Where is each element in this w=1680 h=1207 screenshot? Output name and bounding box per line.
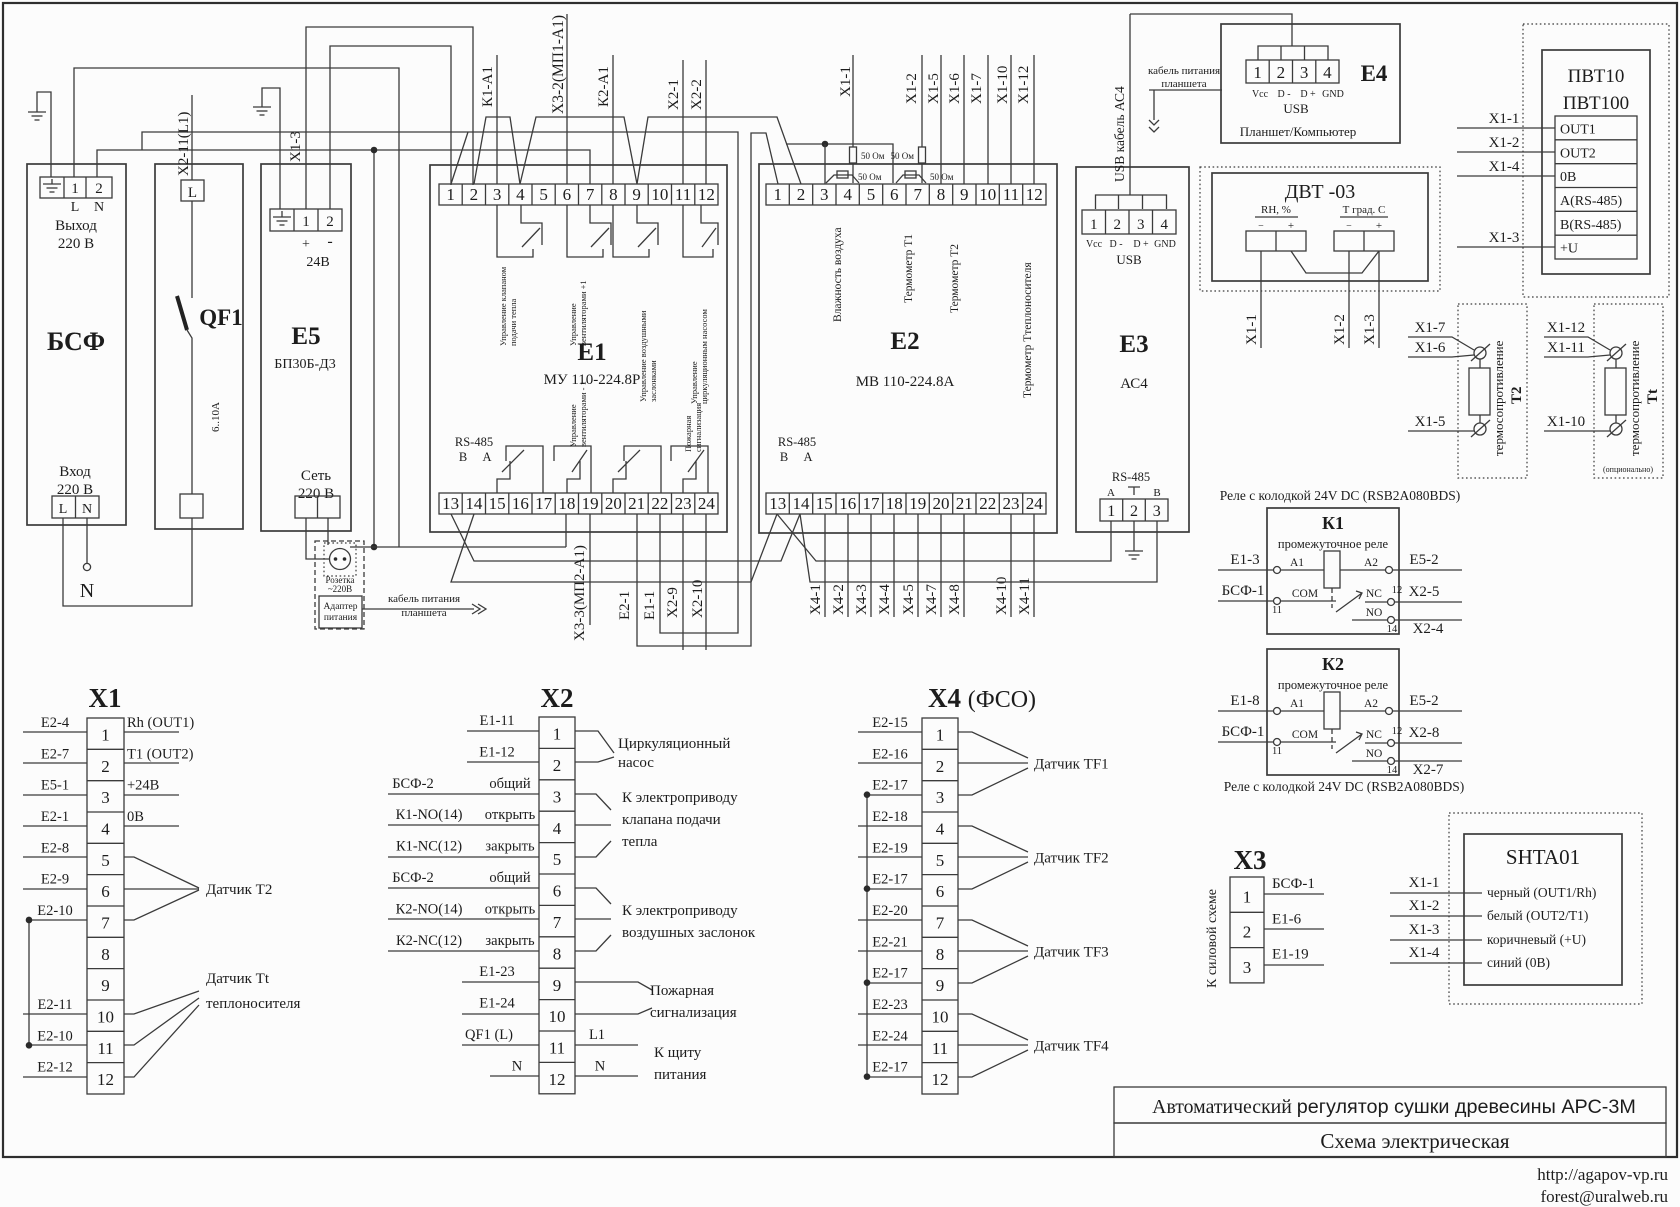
relay contact E1 out 5 [497,446,543,493]
node Х1-3 (SHTA01 коричневый (+U)) [1390,939,1482,941]
svg-text:12: 12 [1392,726,1403,737]
svg-text:22: 22 [979,494,996,513]
svg-text:+: + [1288,220,1294,232]
svg-text:Е2-21: Е2-21 [872,934,907,950]
node Х4-4 [893,514,895,617]
svg-text:Циркуляционный: Циркуляционный [618,736,730,752]
relay contact E1 out 6 (fans -1) [554,446,591,493]
node Е2-9 (X1 row 6) [23,888,87,890]
terminal L of QF1 [181,180,204,201]
wire BSF input N stub [86,518,88,563]
svg-text:4: 4 [1323,63,1332,82]
block E5 power supply BP30B-D3 [261,164,351,531]
svg-text:N: N [94,200,104,215]
svg-text:Е2-7: Е2-7 [41,746,69,762]
svg-text:сигнализация: сигнализация [693,403,703,452]
relay К2 COM contact [1218,741,1336,743]
svg-text:белый (OUT2/T1): белый (OUT2/T1) [1487,908,1588,923]
svg-text:Влажность воздуха: Влажность воздуха [832,227,844,322]
svg-text:7: 7 [586,185,595,204]
power adapter box [319,596,362,628]
svg-text:50 Ом: 50 Ом [930,172,954,182]
RTD Tt leads [1615,359,1617,423]
svg-text:6: 6 [890,185,899,204]
svg-text:4: 4 [516,185,525,204]
svg-text:Е2-4: Е2-4 [41,715,70,731]
svg-text:A(RS-485): A(RS-485) [1560,194,1623,209]
wire USB cable E4 to E3 [1130,14,1292,46]
svg-text:9: 9 [936,976,945,995]
svg-text:4: 4 [101,820,110,839]
svg-text:2: 2 [1113,217,1121,233]
svg-text:БСФ-1: БСФ-1 [1222,724,1265,740]
svg-text:БСФ-1: БСФ-1 [1222,583,1265,599]
svg-text:термосопротивление: термосопротивление [1627,340,1642,456]
svg-text:2: 2 [1130,503,1138,520]
E3 USB terminals [1082,210,1176,234]
svg-text:X1: X1 [89,683,122,713]
sensor Датчик TF2 bracket [958,826,1028,889]
svg-text:3: 3 [553,787,562,806]
relay contact E1 out 8 (fire alarm) [671,446,708,493]
svg-text:N: N [512,1058,523,1074]
svg-text:подачи тепла: подачи тепла [508,298,518,346]
svg-text:В: В [780,450,788,464]
svg-text:Е2-11: Е2-11 [38,997,73,1013]
svg-text:Пожарная: Пожарная [650,983,714,999]
svg-text:1: 1 [446,185,455,204]
svg-text:вентиляторами - 1: вентиляторами - 1 [578,381,588,447]
svg-text:L: L [59,502,68,517]
RTD sensor T2 (thermoresistance) [1458,304,1527,478]
svg-text:Е5-2: Е5-2 [1409,552,1438,568]
svg-text:50 Ом: 50 Ом [891,151,915,161]
svg-text:воздушных заслонок: воздушных заслонок [622,925,756,941]
svg-text:Е2-12: Е2-12 [37,1060,72,1076]
wire BSF input L to QF1 [63,518,192,606]
svg-text:общий: общий [489,776,531,792]
node Е1-11 (X2 row 1) [467,730,539,732]
node Е2-16 (X4 row 2) [858,762,922,764]
svg-text:18: 18 [558,494,575,513]
node Е2-17 (X4 row 9) [867,982,922,984]
svg-text:6..10А: 6..10А [210,402,222,432]
svg-text:БП30Б-Д3: БП30Б-Д3 [274,357,335,372]
svg-text:19: 19 [582,494,599,513]
svg-text:6: 6 [563,185,572,204]
svg-text:Х1-3: Х1-3 [1362,314,1378,345]
QF1 bottom terminal [180,494,203,518]
svg-text:T1 (OUT2): T1 (OUT2) [127,746,194,762]
svg-text:Управление: Управление [568,404,578,447]
svg-text:50 Ом: 50 Ом [861,151,885,161]
svg-text:7: 7 [553,913,562,932]
svg-text:Х1-2: Х1-2 [1332,314,1348,345]
node X1-10 [1544,430,1610,432]
svg-text:закрыть: закрыть [485,839,535,855]
svg-text:питания: питания [324,613,358,623]
relay contact E1 out 2 (fans +1) [567,205,611,257]
svg-text:Пожарная: Пожарная [683,416,693,452]
svg-text:20: 20 [605,494,622,513]
svg-text:2: 2 [797,185,806,204]
node 0В (X1 row 4) [124,825,179,827]
svg-text:+: + [1376,220,1382,232]
svg-text:сигнализация: сигнализация [650,1005,737,1021]
svg-text:22: 22 [651,494,668,513]
svg-text:ПВТ10: ПВТ10 [1568,66,1625,87]
cable arrow chevrons [472,604,486,614]
svg-text:Х1-10: Х1-10 [1547,414,1585,430]
svg-text:К2-NO(14): К2-NO(14) [396,901,463,917]
BSF input terminals L N [52,496,99,518]
svg-text:2: 2 [1277,63,1286,82]
svg-text:термосопротивление: термосопротивление [1491,340,1506,456]
svg-text:L1: L1 [589,1027,605,1043]
svg-text:Х1-5: Х1-5 [1415,414,1446,430]
svg-text:К силовой схеме: К силовой схеме [1205,889,1220,988]
node Х4-1 [824,514,826,617]
svg-text:Е1-24: Е1-24 [479,996,515,1012]
node Х4-2 [847,514,849,617]
svg-text:Х4-3: Х4-3 [854,584,870,615]
svg-text:4: 4 [843,185,852,204]
svg-text:Х1-3: Х1-3 [288,131,304,162]
svg-text:20: 20 [933,494,950,513]
wire branch to mains socket [373,150,375,547]
svg-text:OUT1: OUT1 [1560,123,1596,138]
svg-text:23: 23 [675,494,692,513]
node X1-6 [1408,355,1474,357]
svg-text:+: + [302,237,310,252]
svg-text:3: 3 [820,185,829,204]
sensor Датчик TF4 bracket [958,1014,1028,1077]
svg-text:Е2: Е2 [890,328,919,355]
svg-text:A1: A1 [1290,557,1304,569]
svg-text:-: - [327,233,332,250]
svg-text:A2: A2 [1364,698,1378,710]
svg-text:2: 2 [101,757,110,776]
svg-text:14: 14 [1387,624,1398,635]
svg-text:Реле с колодкой 24V DC (RSB2A0: Реле с колодкой 24V DC (RSB2A080BDS) [1220,488,1460,503]
svg-text:5: 5 [936,851,945,870]
wire stub to X2-11(L1) [191,95,193,180]
svg-text:7: 7 [913,185,922,204]
svg-text:Датчик Тt: Датчик Тt [206,971,270,987]
svg-text:8: 8 [937,185,946,204]
svg-text:Планшет/Компьютер: Планшет/Компьютер [1240,124,1357,139]
svg-text:12: 12 [97,1070,114,1089]
E3 USB plug comb [1096,195,1167,209]
svg-text:13: 13 [769,494,786,513]
svg-text:ДВТ -03: ДВТ -03 [1285,181,1356,203]
node Е2-23 (X4 row 10) [858,1013,922,1015]
E5 output terminals [270,209,342,231]
relay К1 coil pins A1 A2 [1281,569,1385,571]
svg-text:Е5: Е5 [291,323,320,350]
svg-text:Х1-3: Х1-3 [1409,922,1440,938]
svg-text:12: 12 [1026,185,1043,204]
svg-text:11: 11 [932,1039,948,1058]
wire analog common E2-3/E2-6 [786,144,893,183]
svg-text:16: 16 [839,494,856,513]
svg-text:1: 1 [1253,63,1262,82]
block BSF (surge filter) [27,164,126,525]
svg-text:Адаптер: Адаптер [324,602,358,612]
svg-text:Е2-9: Е2-9 [41,872,69,888]
node Х4-8 [963,514,965,617]
svg-text:БСФ-2: БСФ-2 [392,870,433,886]
block E2 input module MV 110-224.8A [759,164,1057,533]
svg-text:Х1-7: Х1-7 [1415,320,1446,336]
svg-text:6: 6 [553,882,562,901]
node T1 (OUT2) (X1 row 2) [124,762,179,764]
svg-text:Х4-8: Х4-8 [947,584,963,615]
RTD T2 leads [1479,359,1481,423]
svg-text:5: 5 [867,185,876,204]
relay К2 NC contact [1365,742,1462,744]
svg-text:Схема электрическая: Схема электрическая [1320,1129,1509,1153]
relay contact E1 out 4 (circulation pump) [683,205,718,257]
svg-text:220 В: 220 В [298,486,334,502]
svg-text:Т град. С: Т град. С [1343,204,1386,216]
svg-text:QF1: QF1 [199,305,242,330]
svg-text:24: 24 [1026,494,1044,513]
mains socket Rozetka ~220V [315,541,364,629]
svg-text:2: 2 [1243,923,1252,942]
node Е2-17 (X4 row 12) [867,1076,922,1078]
svg-text:К2-NC(12): К2-NC(12) [396,933,462,949]
svg-text:Х1-1: Х1-1 [1244,314,1260,345]
node Е1-23 (X2 row 9) [462,981,539,983]
svg-text:общий: общий [489,870,531,886]
wire 220V L bus E1-2/E1-4/E1-9 to E2-2 [474,117,801,184]
block PVT10/PVT100 controller [1523,24,1669,297]
E2 bottom terminals 13-24 [766,493,1046,514]
svg-text:2: 2 [95,181,103,197]
svg-text:RS-485: RS-485 [1112,470,1150,484]
wire E5 -24V to E1-1 [330,46,451,209]
node БСФ-2 (X2 row 3) [388,793,539,795]
circuit breaker QF1 [155,164,243,529]
svg-text:SHTA01: SHTA01 [1506,845,1580,869]
svg-text:Х1-12: Х1-12 [1547,320,1585,336]
svg-text:Управление: Управление [689,361,699,404]
svg-text:Автоматический регулятор сушки: Автоматический регулятор сушки древесины… [1152,1096,1636,1118]
svg-text:RS-485: RS-485 [455,435,493,449]
block DVT-03 humidity/temperature sensor [1200,167,1440,291]
node Rh (OUT1) (X1 row 1) [124,731,179,733]
relay К1 external coil wires [1218,569,1462,571]
wire E5 +24V to E1-2 [306,27,473,209]
node QF1 (L) (X2 row 11) [462,1044,539,1046]
svg-text:К1-А1: К1-А1 [480,66,496,107]
node X2-10 on E1-24 [705,514,707,650]
node X1-11 [1544,355,1610,357]
svg-text:5: 5 [539,185,548,204]
wire E1-1 riser [451,132,468,184]
svg-text:Х1-2: Х1-2 [904,73,920,104]
svg-text:11: 11 [1003,185,1019,204]
svg-text:N: N [82,502,92,517]
node Е1-19 (X3 row 3) [1264,964,1324,966]
svg-text:15: 15 [489,494,506,513]
svg-text:Е2-10: Е2-10 [37,903,72,919]
svg-text:NO: NO [1366,607,1383,619]
svg-text:Х1-1: Х1-1 [1409,875,1440,891]
svg-text:Е2-10: Е2-10 [37,1028,72,1044]
svg-text:Х2-1: Х2-1 [666,79,682,110]
BSF output terminals [40,177,112,198]
svg-text:Е3: Е3 [1119,331,1148,358]
svg-text:промежуточное реле: промежуточное реле [1278,537,1389,551]
svg-text:+24В: +24В [127,778,159,794]
svg-text:16: 16 [512,494,529,513]
wire E5 PE to ground [262,88,280,209]
svg-text:3: 3 [493,185,502,204]
svg-text:QF1 (L): QF1 (L) [465,1027,513,1043]
svg-text:12: 12 [932,1070,949,1089]
relay contact E1 out 1 (heat valve) [497,205,542,257]
sensor Датчик TF1 bracket [958,732,1028,795]
wire DVT RH+ to T+ bridge [1291,251,1379,273]
svg-text:Е1-12: Е1-12 [479,744,514,760]
wire socket to E1-18 [350,546,566,548]
wire RS-485 A to E3-3 [800,514,1157,582]
relay К2 external coil wires [1218,710,1462,712]
svg-text:В: В [1153,487,1160,499]
svg-text:Х1-3: Х1-3 [1489,230,1520,246]
svg-text:9: 9 [960,185,969,204]
svg-text:Е1-19: Е1-19 [1272,947,1309,963]
svg-text:МВ 110-224.8А: МВ 110-224.8А [856,374,955,390]
svg-text:Реле с колодкой 24V DC (RSB2A0: Реле с колодкой 24V DC (RSB2A080BDS) [1224,779,1464,794]
svg-text:4: 4 [936,820,945,839]
svg-text:Е2-16: Е2-16 [872,746,907,762]
node X3-3(MP2-A1) on E1-19 [589,514,591,625]
sensor T2 connection bracket [124,857,199,920]
svg-text:Е2-17: Е2-17 [872,1060,907,1076]
wire tablet power cable [362,608,474,610]
svg-text:К1: К1 [1322,513,1344,533]
relay contact E1 out 7 [613,446,661,493]
svg-text:Т2: Т2 [1509,386,1525,404]
relay К2 box [1267,649,1399,775]
svg-text:USB: USB [1116,252,1142,267]
node Е2-17 (X4 row 3) [867,794,922,796]
svg-text:Х1-5: Х1-5 [926,73,942,104]
E4 USB terminals [1246,60,1339,83]
svg-text:1: 1 [101,726,110,745]
node К1-NC(12) (X2 row 5) [388,856,539,858]
svg-text:Датчик Т2: Датчик Т2 [206,882,272,898]
svg-text:кабель питания: кабель питания [1148,65,1220,77]
svg-text:Vcc: Vcc [1252,89,1269,100]
resistor 50 Ohm shunt 1 (vertical) [852,55,854,183]
svg-text:Х2-10: Х2-10 [690,580,706,618]
svg-text:17: 17 [535,494,553,513]
svg-text:планшета: планшета [401,607,446,619]
svg-text:3: 3 [1137,217,1145,233]
resistor 50 Ohm shunt across E2-6/7 [896,175,926,183]
svg-text:COM: COM [1292,729,1318,741]
svg-text:L: L [71,200,80,215]
node X1-3 (PVT) [1457,246,1555,248]
svg-text:Тt: Тt [1645,389,1661,404]
ground [1125,551,1143,559]
svg-text:3: 3 [101,788,110,807]
svg-text:17: 17 [863,494,881,513]
node Х4-5 [917,514,919,617]
svg-text:1: 1 [773,185,782,204]
svg-text:БСФ-2: БСФ-2 [392,776,433,792]
svg-text:GND: GND [1154,239,1176,250]
title block [1114,1087,1666,1123]
svg-text:http://agapov-vp.ru: http://agapov-vp.ru [1537,1165,1668,1184]
node БСФ-2 (X2 row 6) [388,887,539,889]
svg-text:3: 3 [1243,958,1252,977]
svg-text:3: 3 [1153,503,1161,520]
sensor Tt bracket [124,991,199,1077]
wire E1-22 loop to E1-1 (label E1-1) [142,132,738,633]
node Е5-1 (X1 row 3) [23,794,87,796]
svg-text:10: 10 [932,1008,949,1027]
svg-text:Е1-11: Е1-11 [480,713,515,729]
svg-text:NC: NC [1366,729,1382,741]
svg-text:Термометр Т2: Термометр Т2 [949,244,961,313]
svg-text:9: 9 [553,976,562,995]
node L1 to power board [575,1044,638,1046]
svg-text:Датчик TF3: Датчик TF3 [1034,944,1109,960]
E2 top terminals 1-12 [766,184,1046,205]
E1 bottom terminals 13-24 [439,493,718,514]
svg-text:2: 2 [326,214,334,230]
svg-text:Х1-12: Х1-12 [1016,66,1032,104]
wire BSF N output bus to E1-7 [97,150,590,184]
node Х4-10 [1010,514,1012,617]
svg-text:GND: GND [1322,89,1344,100]
relay К1 COM contact [1218,600,1336,602]
circulation pump bracket [575,731,614,762]
svg-text:RS-485: RS-485 [778,435,816,449]
svg-text:RH, %: RH, % [1261,204,1291,216]
svg-text:10: 10 [97,1008,114,1027]
svg-text:1: 1 [302,214,310,230]
svg-text:К электроприводу: К электроприводу [622,903,738,919]
svg-text:NO: NO [1366,748,1383,760]
svg-text:0В: 0В [127,809,144,825]
svg-text:USB: USB [1283,101,1309,116]
svg-text:15: 15 [816,494,833,513]
wire RS-485 line B E1-13 to E2-14 [451,514,800,561]
svg-text:1: 1 [553,725,562,744]
svg-text:Х1-4: Х1-4 [1489,159,1520,175]
node Е2-7 (X1 row 2) [23,762,87,764]
svg-text:50 Ом: 50 Ом [858,172,882,182]
svg-text:Датчик TF4: Датчик TF4 [1034,1038,1109,1054]
svg-text:OUT2: OUT2 [1560,146,1596,161]
wire X4 E2-17 bus [866,795,868,1077]
svg-text:насос: насос [618,755,654,771]
block E4 tablet/computer [1221,24,1400,143]
node X1-12 [1544,337,1610,350]
svg-text:D +: D + [1300,89,1316,100]
svg-text:Х2-8: Х2-8 [1409,725,1440,741]
wire RS-485 line A E1-14 to E2-13 [451,514,777,582]
svg-text:Е2-18: Е2-18 [872,809,907,825]
svg-text:открыть: открыть [485,901,536,917]
svg-text:N: N [80,580,94,602]
